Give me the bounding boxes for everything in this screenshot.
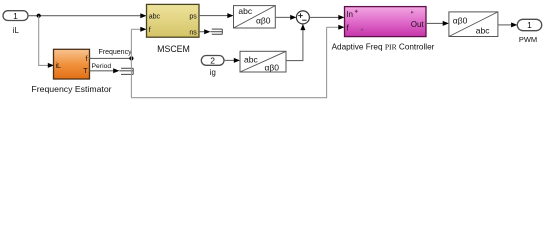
wire iL branch to Frequency Estimator (39, 16, 54, 68)
wire iL to MSCEM abc (28, 13, 147, 18)
block abc to alpha-beta transform U1 (234, 6, 276, 28)
svg-text:In: In (347, 10, 354, 19)
terminator ns (210, 29, 222, 34)
wire transform2 to sum minus (286, 24, 305, 61)
wire sum to controller In (309, 15, 344, 20)
wire ns to terminator (199, 29, 210, 34)
wire controller Out to transform3 (426, 21, 449, 26)
block MSCEM (147, 4, 200, 37)
svg-text:Out: Out (411, 20, 424, 29)
outport 1 (517, 19, 541, 30)
wire f output (Frequency) (90, 57, 132, 59)
terminator Period (119, 68, 133, 74)
inport 2 (201, 56, 224, 66)
svg-text:f: f (86, 56, 88, 63)
wire ps to abc-ab0 transform (199, 13, 234, 18)
svg-text:αβ0: αβ0 (264, 63, 279, 73)
svg-text:MSCEM: MSCEM (157, 44, 190, 54)
svg-text:2: 2 (210, 56, 215, 66)
node junction iL (37, 14, 41, 18)
wire ig to transform2 (224, 58, 240, 63)
wire transform3 to outport (498, 22, 517, 27)
svg-text:ns: ns (189, 30, 197, 37)
wire T output (Period) (90, 68, 120, 73)
svg-text:ps: ps (189, 13, 197, 20)
wire transform1 to sum (275, 15, 296, 20)
svg-text:T: T (83, 68, 88, 75)
svg-text:Period: Period (92, 63, 112, 70)
svg-text:Adaptive Freq PIR Controller: Adaptive Freq PIR Controller (332, 42, 435, 51)
block Frequency Estimator (54, 49, 90, 79)
svg-text:αβ0: αβ0 (453, 16, 468, 26)
node junction Frequency (129, 56, 133, 60)
svg-text:abc: abc (149, 13, 161, 20)
svg-text:abc: abc (476, 26, 490, 36)
svg-text:iL: iL (56, 63, 62, 70)
svg-text:PWM: PWM (519, 35, 537, 44)
wire frequency feedback loop (131, 25, 344, 98)
svg-text:Frequency: Frequency (99, 49, 133, 56)
svg-text:Frequency Estimator: Frequency Estimator (31, 84, 111, 94)
svg-text:f: f (149, 27, 151, 34)
block abc to alpha-beta transform U2 (240, 51, 286, 72)
block alpha-beta to abc transform U3 (449, 12, 498, 37)
svg-text:1: 1 (13, 11, 18, 21)
svg-text:abc: abc (238, 6, 252, 16)
svg-text:1: 1 (527, 20, 532, 30)
svg-text:iL: iL (13, 26, 20, 35)
svg-text:ig: ig (210, 68, 216, 77)
sum junction (296, 11, 309, 24)
svg-text:αβ0: αβ0 (256, 15, 271, 25)
inport 1 (3, 11, 28, 21)
block Adaptive Freq PIR Controller (345, 7, 427, 37)
svg-text:abc: abc (244, 55, 258, 65)
